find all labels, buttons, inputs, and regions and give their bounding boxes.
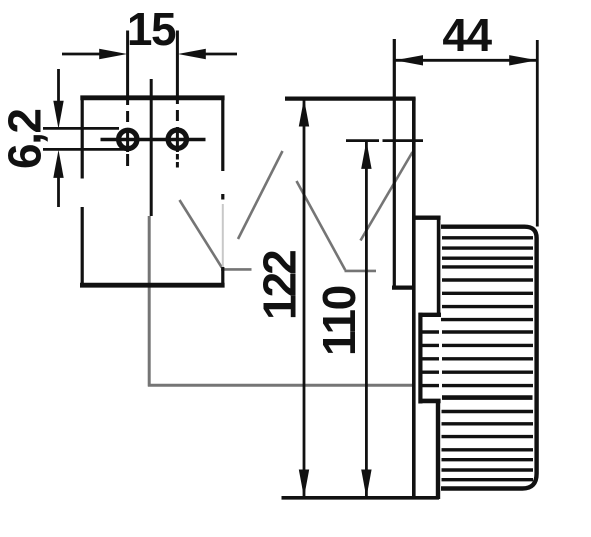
- svg-text:15: 15: [127, 3, 176, 55]
- svg-text:44: 44: [442, 9, 492, 61]
- svg-text:110: 110: [313, 286, 365, 356]
- svg-text:6,2: 6,2: [0, 110, 51, 169]
- svg-text:122: 122: [253, 251, 305, 320]
